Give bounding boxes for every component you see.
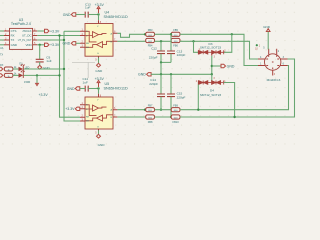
svg-text:MiniDIN-6: MiniDIN-6 (267, 78, 281, 82)
svg-text:150R: 150R (24, 80, 30, 84)
U5 left pin numbers (82, 102, 84, 121)
wire B to connector corner (180, 41, 258, 59)
wire C13b bottom (170, 54, 172, 63)
U3 pin 3 TX stub (4, 39, 10, 41)
wire U5 B to bead FB8 (117, 116, 145, 118)
wire A between beads (155, 33, 172, 35)
wire A2 to right riser (180, 66, 289, 110)
wire gnd rail down to C14 (160, 74, 162, 93)
wire D3 center to gnd (211, 56, 214, 75)
wire C11 to U5 VCC node (88, 88, 98, 90)
resistor R7 (4, 67, 13, 72)
junction A at FB3 (144, 33, 146, 35)
J2 inner pin ticks (266, 55, 279, 69)
testpad module U3 TestPath-2.0 (10, 18, 33, 50)
wire UT_PL_OUT to node (37, 39, 64, 41)
junction U4 VCC (97, 13, 99, 15)
wire B between beads (155, 40, 172, 42)
junction gnd rail at 161 (160, 73, 162, 75)
svg-text:D1: D1 (19, 61, 23, 65)
J2 shield cluster (256, 44, 258, 46)
ferrite bead FB7 (146, 104, 155, 113)
svg-text:SM712_SOT23: SM712_SOT23 (200, 93, 222, 97)
junction VDD-C9 (39, 44, 41, 46)
capacitor C9 (36, 59, 44, 62)
U3 pin 4 GND stub (4, 44, 10, 46)
wire GND label to U4 RE (76, 42, 80, 44)
U5 internal wiring (85, 105, 113, 121)
wire R7 to LED D1 (13, 68, 19, 70)
ground symbol C9 (38, 65, 42, 69)
wire B to C12 (160, 41, 162, 50)
wire U4.R pin (64, 30, 80, 32)
LED D1 (19, 64, 25, 72)
TVS array D4 SM712 (198, 81, 223, 85)
junction UT_DC branch (58, 34, 60, 36)
U4 pin names (86, 26, 113, 55)
wire C15 to lower B row (170, 97, 172, 117)
svg-text:220pF: 220pF (177, 95, 186, 99)
wire B down to D3 pin1 (194, 41, 199, 52)
svg-text:FB9: FB9 (173, 104, 178, 108)
junction A2 at FB7 (144, 109, 146, 111)
capacitor C13b (167, 51, 175, 54)
svg-text:RE: RE (86, 43, 90, 45)
global label arrow LED2 (0, 74, 3, 77)
resistor R8 (4, 73, 13, 78)
U5 driver amp (93, 105, 99, 111)
U5 right pin stubs A B (113, 110, 117, 117)
junction C13 tap on A (170, 33, 172, 35)
svg-text:SN65HVD11D: SN65HVD11D (104, 15, 128, 19)
U4 internal wiring (85, 31, 113, 47)
wire VDD down to C9 (39, 45, 41, 59)
U5 left pin stubs (80, 105, 85, 121)
U5 receiver amp (97, 115, 103, 121)
svg-text:220pF: 220pF (177, 53, 186, 57)
svg-text:TX: TX (0, 54, 3, 57)
power symbol +3.3V U5 (97, 80, 100, 87)
junction gnd rail to TVS column (211, 73, 213, 75)
svg-text:+3.3V: +3.3V (50, 29, 60, 33)
U4 bottom pin 5 stub (98, 56, 100, 58)
junction C14 on A2 (160, 109, 162, 111)
svg-text:GND: GND (263, 25, 271, 29)
TVS array D3 SM712 (198, 50, 223, 54)
svg-text:+3.3V: +3.3V (38, 93, 48, 97)
power symbol +3.3V U4 (97, 6, 100, 13)
vertical net wire UT_DC to U5 (60, 36, 81, 118)
U3 pin numbers (5, 28, 36, 45)
wire U4 B to bead FB4 (117, 40, 145, 42)
junction LED2 power tap (36, 74, 38, 76)
svg-text:+3.3V: +3.3V (50, 43, 60, 47)
svg-text:RE: RE (86, 117, 90, 119)
junction D4 on A2 (197, 109, 199, 111)
svg-text:FB5: FB5 (173, 28, 178, 32)
global label +3.3V row4 (45, 43, 50, 46)
ferrite bead FB4 (146, 38, 155, 47)
junction U5 VCC (97, 87, 99, 89)
wire C13 to U4 VCC node (88, 14, 98, 16)
svg-text:RX: RX (11, 34, 15, 38)
capacitor C11 (85, 86, 88, 92)
wire D4 pin2 to B2 (224, 83, 235, 118)
svg-text:FB8: FB8 (148, 120, 153, 124)
U4 receiver amp (97, 42, 103, 48)
global label +3.3V row1 (45, 29, 50, 32)
wire LED D2 to node (24, 74, 60, 76)
transceiver U5 SN65HVD11D (85, 82, 128, 129)
transceiver U4 SN65HVD11D (85, 11, 128, 57)
wire UT_DC to U4 pin D (37, 35, 80, 37)
wire gnd rail (151, 73, 212, 75)
svg-text:G: G (97, 127, 99, 129)
wire LED D1 to node (24, 68, 64, 70)
wire branch to GND label (212, 65, 221, 67)
junction C15 on B2 (170, 116, 172, 118)
ground symbol U5 (97, 134, 101, 138)
ferrite bead FB9 (171, 104, 180, 113)
J2 right pin stubs (280, 59, 287, 66)
U3 pin 2 RX stub (4, 35, 10, 37)
cursor crosshair (72, 62, 95, 78)
svg-text:+3.3V: +3.3V (65, 107, 75, 111)
connector J2 MiniDIN-6 (265, 54, 281, 82)
wire U3 RX to left edge (0, 35, 4, 37)
svg-text:/WCLK: /WCLK (22, 29, 31, 33)
svg-text:GND: GND (67, 87, 75, 91)
capacitor C14 (157, 94, 165, 97)
power symbol +3.3V down (36, 83, 39, 85)
svg-text:GND: GND (63, 13, 71, 17)
junction gnd rail at 171 (170, 73, 172, 75)
wire A2 between beads (155, 109, 172, 111)
wire R8 to LED D2 (13, 74, 19, 76)
U4 driver amp (93, 32, 99, 38)
U5 pin 8 stub (98, 94, 100, 97)
wire U5 A to bead FB7 (117, 109, 145, 111)
capacitor C13 (85, 12, 88, 18)
svg-text:VDD: VDD (25, 43, 31, 47)
U4 pin 8 stub (98, 20, 100, 23)
svg-text:UT_PL_OUT: UT_PL_OUT (18, 39, 32, 42)
junction cap rail (160, 61, 162, 63)
J2 left pin stubs (258, 59, 265, 66)
U3 pin 1 CTS stub (4, 30, 10, 32)
wire cap rail to gnd rail (160, 62, 162, 74)
svg-text:FB10: FB10 (172, 120, 179, 124)
svg-text:UT_DC: UT_DC (22, 34, 32, 38)
svg-text:G: G (97, 53, 99, 55)
D4 center pin stub (211, 81, 213, 82)
wire A to C13 (170, 34, 172, 50)
wire C14 to lower A row (160, 97, 162, 110)
J2 pin numbers (260, 47, 285, 66)
svg-text:SM712_SOT23: SM712_SOT23 (200, 45, 222, 49)
svg-text:+3.3V: +3.3V (95, 3, 105, 7)
svg-text:1uF: 1uF (46, 59, 51, 63)
wire GND to J2 pin 5 (267, 32, 270, 49)
svg-text:C12: C12 (151, 47, 157, 51)
U5 pin names (86, 100, 113, 129)
U4 left pin numbers (82, 29, 84, 48)
svg-text:1uF: 1uF (85, 6, 90, 10)
wire D4 pin1 down to A2 (197, 85, 199, 110)
svg-text:UA: UA (0, 47, 4, 50)
capacitor C12 (157, 51, 165, 54)
svg-text:220pF: 220pF (149, 82, 158, 86)
junction TX node (63, 39, 65, 41)
junction D3 tap on B (192, 40, 194, 42)
wire A to connector corner (180, 34, 258, 65)
ferrite bead FB3 (146, 28, 155, 37)
J2 top pin stubs (269, 49, 277, 54)
wire A down to D3 pin2 (224, 34, 232, 52)
junction C12 tap on B (160, 40, 162, 42)
svg-text:GND: GND (95, 69, 103, 73)
wire power tap down (36, 75, 38, 83)
svg-text:220pF: 220pF (149, 56, 158, 60)
capacitor C15 (167, 94, 175, 97)
wire U3 CTS to left edge (0, 30, 4, 32)
wire GND label to C11 (80, 88, 85, 90)
svg-text:DE: DE (86, 47, 90, 49)
svg-text:D4: D4 (210, 88, 214, 92)
wire B2 to right riser (180, 59, 295, 117)
U4 right pin stubs A B (113, 33, 117, 41)
svg-text:GND: GND (11, 43, 17, 47)
ground symbol U4 (97, 63, 101, 67)
svg-text:GND: GND (98, 143, 106, 147)
wire C9 to ground (39, 62, 41, 66)
junction D3 tap on A (231, 33, 233, 35)
junction LED1 net (63, 68, 65, 70)
svg-text:GND: GND (227, 64, 235, 68)
global label arrow LED1 (0, 67, 3, 70)
svg-text:FB3: FB3 (148, 28, 153, 32)
U3 right pin stubs /WCLK UT_DC UT_PL_OUT VDD (33, 31, 38, 45)
ferrite bead FB8 (146, 115, 155, 124)
junction D3 gnd branch (211, 65, 213, 67)
svg-text:+3.3V: +3.3V (95, 77, 105, 81)
ferrite bead FB10 (171, 115, 180, 124)
svg-text:SN65HVD11D: SN65HVD11D (104, 86, 128, 90)
svg-text:FB7: FB7 (148, 104, 153, 108)
svg-text:DE: DE (86, 121, 90, 123)
wire VCC node to U5 pin 8 (98, 89, 100, 94)
global label GND at D3 (221, 64, 226, 67)
svg-text:RX: RX (0, 64, 4, 67)
wire VDD to +3.3V label (37, 44, 44, 46)
wire U3 GND to left edge (0, 44, 4, 46)
wire C12 bottom (160, 54, 162, 63)
wire /WCLK to +3.3V label (37, 30, 44, 32)
U4 left pin stubs (80, 31, 85, 47)
svg-text:TestPath-2.0: TestPath-2.0 (11, 22, 31, 26)
U5 bottom pin 5 stub (98, 129, 100, 131)
svg-text:GND: GND (138, 73, 146, 77)
ferrite bead FB5 (171, 28, 180, 37)
wire cap rail (161, 61, 171, 63)
LED D2 (19, 70, 25, 78)
wire B2 between beads (155, 116, 172, 118)
svg-text:FB6: FB6 (173, 44, 178, 48)
wire U4 A to bead FB3 (117, 33, 145, 37)
svg-text:1uF: 1uF (83, 80, 88, 84)
svg-text:CTS: CTS (11, 29, 17, 33)
wire GND label to C13 (76, 14, 85, 16)
vertical net wire U4.R to U3.TX and U5 (64, 31, 80, 121)
junction D4 on B2 (233, 116, 235, 118)
J2 bottom pin stub (272, 70, 274, 75)
svg-text:TX: TX (11, 38, 15, 42)
D3 center pin stub (211, 54, 213, 56)
svg-text:GND: GND (63, 42, 71, 46)
wire gnd rail down to C15 (170, 74, 172, 93)
wire U3 TX to left edge (0, 39, 4, 41)
ferrite bead FB6 (171, 38, 180, 47)
wire gnd rail down to D4 center (211, 74, 213, 80)
wire VCC node to U4 pin 8 (98, 15, 100, 21)
junction LED2 net (58, 74, 60, 76)
